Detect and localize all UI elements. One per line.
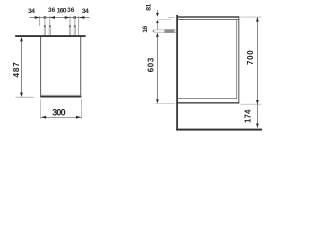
svg-text:300: 300	[52, 107, 65, 117]
svg-text:487: 487	[12, 62, 21, 78]
svg-text:34: 34	[82, 8, 89, 15]
svg-text:174: 174	[244, 109, 253, 123]
svg-text:34: 34	[28, 8, 35, 15]
svg-text:160: 160	[57, 7, 67, 14]
svg-text:603: 603	[147, 57, 156, 72]
svg-text:36: 36	[48, 7, 56, 14]
svg-text:16: 16	[142, 25, 149, 32]
svg-text:81: 81	[146, 3, 153, 10]
svg-text:700: 700	[246, 50, 255, 65]
svg-text:36: 36	[67, 7, 75, 14]
